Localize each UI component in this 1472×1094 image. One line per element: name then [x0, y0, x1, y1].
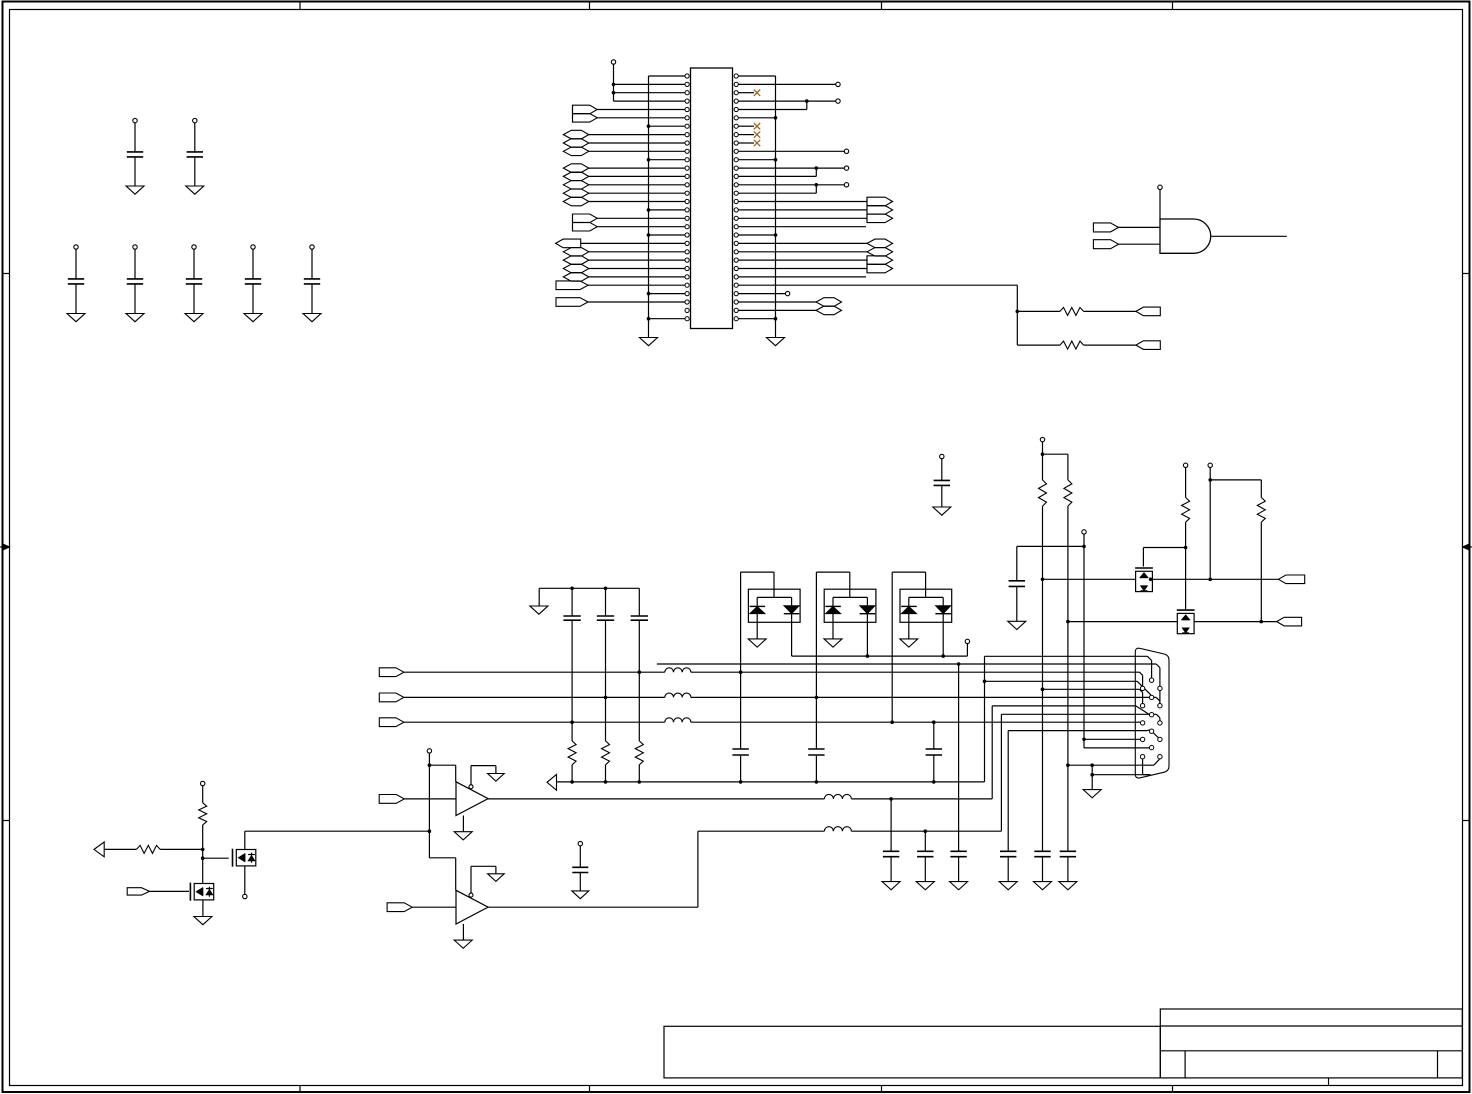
U3A input flag: [379, 795, 404, 804]
wire: [589, 150, 685, 152]
wire row26 long to resistors: [738, 284, 1017, 286]
wire: [738, 201, 867, 203]
wire: [202, 825, 204, 884]
wire: [589, 134, 685, 136]
right hex flags rows28-29: [816, 298, 842, 307]
connector J1 outline: [1135, 648, 1169, 778]
flag rail1: [1278, 575, 1304, 584]
capacitor C_sh (605.5): [605, 588, 607, 616]
wire: [1119, 226, 1161, 228]
wire: [589, 184, 685, 186]
capacitor C_sh4 (933.8): [933, 722, 935, 749]
capacitor C22: [133, 245, 137, 249]
ground: [1034, 882, 1052, 890]
ground: [185, 314, 203, 322]
U1 right pins: [734, 74, 738, 78]
ground (U1 right bus): [767, 338, 785, 346]
lower stub 765: [1143, 764, 1153, 766]
bidir flag row12: [563, 164, 589, 173]
U1 right bus stubs: [738, 117, 775, 119]
left pent flag row28: [556, 298, 588, 307]
wire pin13 join pin12: [738, 175, 816, 177]
wire row19 stub: [738, 226, 866, 228]
ground: [950, 882, 968, 890]
U2 output wire: [1211, 235, 1287, 237]
TVS diode pair box: [824, 589, 876, 622]
wire U3B output: [488, 906, 698, 908]
wire: [589, 175, 685, 177]
wire: [738, 259, 867, 261]
flag rail B: [379, 693, 404, 702]
wire R_a down: [1042, 506, 1044, 851]
ground: [67, 314, 85, 322]
ground (TVS): [748, 639, 766, 647]
capacitor C_sh (572.1): [571, 588, 573, 616]
terminal node gate R (1185.6): [1183, 463, 1187, 467]
wire rail B right: [691, 696, 1156, 698]
wire pin5 join pin4: [738, 109, 806, 111]
wire: [738, 309, 816, 311]
wire U3B power: [428, 829, 432, 833]
wire: [104, 848, 136, 850]
signal rail 2 (621.6): [1068, 621, 1177, 623]
ground: [916, 882, 934, 890]
ground: [1008, 621, 1026, 629]
wire to ground: [756, 614, 758, 639]
wire: [597, 109, 685, 111]
wire pin14 to terminal: [738, 184, 844, 186]
TVS diode pair box: [900, 589, 952, 622]
capacitor C_a bottom: [1034, 850, 1050, 852]
ground (shunt trio): [530, 606, 548, 614]
wire: [1017, 310, 1060, 312]
diode D_right (down): [935, 606, 951, 614]
U3B input flag: [387, 903, 412, 912]
wire shunt top: [539, 587, 639, 589]
wire pin10 to terminal: [738, 150, 844, 152]
U1 left bus stubs: [649, 125, 685, 127]
wire: [589, 201, 685, 203]
bidir flag row9: [563, 139, 589, 148]
bidir flag row10: [563, 147, 589, 156]
ground: [999, 882, 1017, 890]
wire: [605, 765, 607, 782]
wire pin3: [614, 92, 685, 94]
ground: [186, 186, 204, 194]
wire M1 gate link: [1143, 547, 1185, 549]
rail A stub: [1138, 671, 1140, 673]
wire rail739: [1082, 738, 1086, 742]
wire inner: [833, 596, 867, 598]
U2 input flag 2: [1093, 240, 1118, 249]
wire rail C: [404, 721, 665, 723]
capacitor C21: [74, 245, 78, 249]
ground (connector): [1083, 790, 1101, 798]
rail B stub: [1156, 697, 1160, 701]
wire: [738, 217, 867, 219]
wire: [1084, 344, 1136, 346]
left output flag row21: [556, 239, 581, 248]
diode D_left (up): [901, 605, 917, 607]
transistor M1: [1136, 571, 1153, 591]
NC row8: [738, 134, 754, 136]
connector pins: [1140, 686, 1144, 690]
ground (U3B): [454, 940, 472, 948]
resistor R_top1: [1060, 307, 1084, 315]
wire rail 731: [1008, 730, 1147, 732]
wire: [638, 765, 640, 782]
wire: [1043, 453, 1068, 455]
wire cap C_b: [1067, 765, 1069, 851]
capacitor C_c (958.6): [950, 850, 966, 852]
wire: [851, 830, 1001, 832]
border zone ticks bottom: [299, 1086, 301, 1093]
wire: [588, 301, 685, 303]
wire: [738, 301, 816, 303]
wire: [1210, 479, 1261, 481]
diode D_right (down): [860, 606, 876, 614]
terminal node R pair top: [1040, 437, 1044, 441]
wire to ground: [832, 614, 834, 639]
capacitor C_f (925.3): [917, 850, 933, 852]
ground: [933, 507, 951, 515]
wire bottom link: [1068, 764, 1144, 766]
diode D_right (down): [784, 606, 800, 614]
bidir flag row25: [563, 273, 589, 282]
capacitor C23: [192, 245, 196, 249]
ground: [882, 882, 900, 890]
terminal node mid (1084): [1082, 530, 1086, 534]
wire pin2: [614, 83, 685, 85]
wire: [581, 242, 685, 244]
wire pin2 to terminal: [738, 83, 835, 85]
wire: [589, 251, 685, 253]
resistor R_g2 (1261.3): [1257, 497, 1265, 522]
bidir flag row24: [563, 264, 589, 273]
wire pin4: [614, 100, 685, 102]
wire lower connector row: [1092, 774, 1150, 776]
wire rail A right: [691, 671, 1138, 673]
capacitor C_e (891.1): [883, 850, 899, 852]
border zone ticks right: [1463, 273, 1470, 275]
wire Q3 source down: [244, 866, 246, 894]
wire TVS bottom link: [792, 655, 968, 657]
ground: [1059, 882, 1077, 890]
inductor L3: [665, 718, 691, 722]
ground: [244, 314, 262, 322]
bidir flag row23: [563, 256, 589, 265]
wire rail 714 buffer2: [1000, 714, 1002, 831]
bidir flag row14: [563, 181, 589, 190]
inductor L2: [665, 693, 691, 697]
signal rail 1 (579.3): [1043, 578, 1136, 580]
wire to shunt cap: [1017, 545, 1084, 547]
wire inner: [909, 596, 943, 598]
bidir flag row8: [563, 130, 589, 139]
resistor R_sh (639.3): [635, 741, 643, 765]
wire rail B: [404, 696, 665, 698]
left flag pair rows5-6: [572, 105, 574, 122]
wire: [738, 268, 867, 270]
wire: [150, 890, 190, 892]
wire rail 689: [1041, 688, 1045, 692]
wire: [589, 268, 685, 270]
U1 left pins: [685, 74, 689, 78]
ground: [572, 891, 589, 899]
wire Q2 source: [202, 900, 204, 917]
ground: [126, 186, 144, 194]
wire rail C right: [691, 721, 1138, 723]
node top-left terminal of U1: [611, 60, 615, 64]
NC row9: [738, 142, 754, 144]
wire R_b down: [1067, 506, 1069, 765]
wire to ground: [908, 614, 910, 639]
wire gnd stem under connector: [1090, 763, 1094, 767]
capacitor C25: [310, 245, 314, 249]
wire rail 664: [657, 663, 1156, 665]
wire rail 706 buffer1: [991, 706, 993, 799]
border zone ticks top: [299, 2, 301, 10]
NC row7: [738, 125, 754, 127]
wire row25 stub: [738, 276, 866, 278]
wire row27 to terminal: [738, 293, 785, 295]
wire: [597, 117, 685, 119]
revision table rect: [664, 1026, 1160, 1078]
wire: [738, 209, 867, 211]
flag out2: [1136, 341, 1160, 350]
U3A enable pin: [469, 785, 473, 789]
resistor R_sh (605.5): [602, 741, 610, 765]
wire diode right down: [942, 614, 944, 656]
flag out1: [1136, 307, 1160, 316]
capacitor C12: [193, 118, 197, 122]
wire U3B gnd pin: [462, 924, 464, 940]
lower stub 775: [1143, 774, 1151, 776]
wire cap C_e stem: [890, 799, 892, 851]
left flag pair rows18-19: [572, 214, 574, 231]
terminal node (1210.2): [1208, 463, 1212, 467]
flag rail C: [379, 718, 404, 727]
border zone ticks left: [3, 273, 10, 275]
node terminal Q3 source: [243, 894, 247, 898]
ground (U3B en): [488, 874, 505, 882]
wire cap C_c stem: [958, 664, 960, 851]
node terminal TVS link: [965, 639, 969, 643]
wire: [738, 251, 867, 253]
capacitor C24: [251, 245, 255, 249]
flag rail2: [1277, 617, 1302, 626]
wire diode right down: [866, 614, 868, 656]
ground: [303, 314, 321, 322]
ground (U3A en): [488, 774, 505, 782]
wire: [589, 192, 685, 194]
wire: [589, 167, 685, 169]
wire: [738, 242, 867, 244]
wire U3A output: [488, 798, 824, 800]
left pent flag row26: [556, 281, 588, 290]
U2 input flag 1: [1093, 223, 1118, 232]
bidir flag row13: [563, 172, 589, 181]
wire diode right down: [791, 614, 793, 656]
resistor R_top2: [1060, 341, 1084, 349]
node Vcc terminal: [427, 749, 431, 753]
bidir flag row15: [563, 189, 589, 198]
link col2p4-col3p4: [1153, 733, 1158, 738]
wire cap C_f stem: [924, 831, 926, 851]
wire TVS left vertical: [815, 572, 817, 749]
U3B enable pin: [469, 893, 473, 897]
border tick strip divider bottom right: [1328, 1078, 1330, 1086]
wire: [588, 284, 685, 286]
wire pin12 to terminal: [738, 167, 844, 169]
wire: [1017, 344, 1060, 346]
ground: [126, 314, 144, 322]
flag rail A: [379, 668, 404, 677]
capacitor C_tvs1 (740.6): [732, 748, 748, 750]
bidir flag row16: [563, 197, 589, 206]
wire U3A gnd pin: [462, 816, 464, 832]
ground (U1 left bus): [640, 338, 658, 346]
AND gate U2: [1160, 219, 1211, 253]
inductor L4: [824, 794, 851, 799]
wire: [589, 259, 685, 261]
transistor Q2: [194, 884, 214, 900]
wire top: [892, 571, 925, 573]
wire U3A power: [429, 764, 455, 766]
capacitor C_tvs2 (816.4): [808, 748, 824, 750]
rail C stub: [1138, 721, 1141, 723]
wire rail 681: [983, 680, 987, 684]
capacitor C_mid2 (1016.8): [1009, 580, 1025, 582]
capacitor C_mid (941.8): [940, 454, 944, 458]
wire rail A: [404, 671, 665, 673]
wire top: [816, 571, 849, 573]
capacitor C_b bottom: [1060, 850, 1076, 852]
wire pin4 to terminal: [738, 100, 835, 102]
title block: [1160, 1009, 1462, 1078]
resistor R_in: [136, 845, 160, 853]
ground (TVS): [824, 639, 842, 647]
wire: [589, 276, 685, 278]
resistor R_b (1067.9): [1064, 480, 1072, 506]
wire: [589, 142, 685, 144]
transistor Q3: [236, 850, 256, 866]
wire Q3 gate: [203, 857, 229, 859]
resistor R_q: [199, 803, 207, 825]
wire pin15 join pin14: [738, 192, 816, 194]
capacitor C_sh (639.3): [638, 588, 640, 616]
wire link col3 p1-p2: [1159, 691, 1161, 704]
bus arrow (left): [547, 774, 557, 790]
op-amp buffer U3A: [456, 782, 488, 816]
capacitor C_g (580.3): [578, 841, 582, 845]
diode D_left (up): [750, 605, 766, 607]
right flag trio rows16-18: [866, 197, 868, 222]
border center arrow right: [1463, 546, 1472, 548]
resistor R_a (1042.5): [1039, 480, 1047, 506]
ground (U3A): [454, 832, 472, 840]
node terminal Q (202.7,783.5): [201, 781, 205, 785]
wire: [1260, 522, 1262, 621]
transistor M2: [1177, 613, 1194, 633]
capacitor C11: [133, 118, 137, 122]
wire rail 748: [1084, 747, 1149, 749]
wire TVS left vertical: [891, 572, 893, 722]
input arrow left: [94, 842, 104, 857]
wire: [851, 798, 992, 800]
wire top: [741, 571, 774, 573]
U2 top pin terminal: [1158, 185, 1162, 189]
wire: [597, 217, 685, 219]
border center arrow left: [0, 546, 10, 548]
flag Q2 gate: [127, 888, 149, 895]
wire ground bus: [557, 781, 985, 783]
wire rail 656: [985, 655, 1148, 657]
wire: [571, 765, 573, 782]
wire: [160, 848, 203, 850]
op-amp buffer U3B: [456, 890, 488, 924]
wire shunt verticals: [571, 648, 573, 741]
U1 right ground bus wire: [775, 76, 777, 338]
ground (TVS): [900, 639, 918, 647]
wire TVS left vertical: [740, 572, 742, 749]
resistor R_sh (572.1): [568, 741, 576, 765]
wire Q3 drain up: [244, 831, 246, 849]
wire: [404, 798, 456, 800]
wire rail 739: [1084, 738, 1140, 740]
inductor L1: [665, 668, 691, 672]
wire: [597, 226, 685, 228]
inductor L5: [824, 827, 851, 831]
wire inner: [757, 596, 791, 598]
TVS diode pair box: [748, 589, 800, 622]
wire: [412, 906, 456, 908]
diode D_left (up): [825, 605, 841, 607]
U1 left ground bus wire: [648, 76, 650, 338]
capacitor C_d (1008.2): [1000, 850, 1016, 852]
right flag pair rows23-24: [866, 256, 868, 273]
resistor R_g1: [1182, 497, 1190, 522]
IC U1 body: [691, 68, 733, 329]
bidir flag row22: [563, 248, 589, 257]
ground (Q2): [194, 917, 212, 925]
right hex flags rows21-22: [867, 239, 893, 248]
NC row3: [738, 92, 754, 94]
wire: [1119, 243, 1161, 245]
wire: [1084, 310, 1136, 312]
wire gate chain: [1185, 522, 1187, 609]
